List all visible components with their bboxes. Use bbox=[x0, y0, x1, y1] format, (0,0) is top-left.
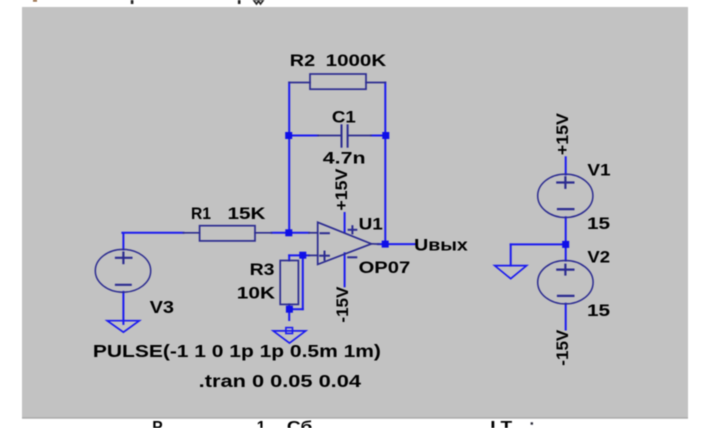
svg-text:V3: V3 bbox=[150, 297, 175, 317]
svg-text:15K: 15K bbox=[228, 204, 266, 223]
svg-text:V1: V1 bbox=[587, 160, 610, 179]
svg-text:U1: U1 bbox=[359, 215, 383, 234]
svg-text:Р: Р bbox=[152, 419, 162, 428]
svg-text:V2: V2 bbox=[587, 247, 610, 266]
svg-text:1000K: 1000K bbox=[326, 51, 387, 70]
svg-text:LT: LT bbox=[490, 419, 513, 428]
svg-text:15: 15 bbox=[587, 301, 610, 320]
svg-text:1: 1 bbox=[257, 419, 266, 428]
svg-text:Сб: Сб bbox=[287, 419, 312, 428]
svg-text:.tran 0 0.05 0.04: .tran 0 0.05 0.04 bbox=[199, 371, 361, 391]
svg-text:R2: R2 bbox=[290, 51, 315, 70]
svg-text:4.7n: 4.7n bbox=[323, 148, 366, 167]
svg-text:PULSE(-1 1 0 1p 1p 0.5m 1m): PULSE(-1 1 0 1p 1p 0.5m 1m) bbox=[93, 341, 381, 361]
svg-text:OP07: OP07 bbox=[359, 258, 411, 277]
svg-text:+15V: +15V bbox=[553, 113, 572, 155]
svg-text:15: 15 bbox=[587, 214, 610, 233]
svg-text:+15V: +15V bbox=[332, 169, 351, 211]
svg-text:R3: R3 bbox=[250, 260, 275, 279]
svg-text:-15V: -15V bbox=[553, 330, 572, 366]
svg-text:C1: C1 bbox=[332, 107, 356, 126]
svg-text:R1: R1 bbox=[191, 204, 211, 223]
svg-text:-15V: -15V bbox=[333, 287, 352, 323]
svg-text:Uвых: Uвых bbox=[414, 235, 469, 254]
svg-text:10K: 10K bbox=[237, 284, 275, 303]
